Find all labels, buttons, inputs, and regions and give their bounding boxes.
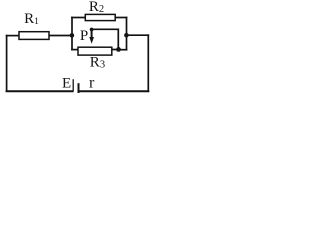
battery short plate (r side)	[78, 83, 80, 93]
node B junction dot	[124, 33, 129, 38]
potentiometer wiper arrowhead	[89, 37, 94, 44]
battery long plate (E)	[72, 79, 74, 91]
wire top left corner to R1	[7, 35, 19, 37]
svg-text:E: E	[62, 75, 71, 91]
R3 right terminal junction dot	[116, 47, 121, 52]
resistor R2	[85, 14, 115, 20]
svg-text:r: r	[89, 75, 95, 92]
wire R3 right end to terminal dot	[112, 49, 119, 51]
wire left edge	[6, 36, 8, 92]
wire bottom left	[7, 90, 73, 92]
wire node A top to R2 left	[72, 17, 85, 19]
wire vertical through node A	[71, 18, 73, 50]
wire right edge	[147, 35, 149, 91]
wire node A bottom to R3 left	[72, 49, 78, 51]
wire wiper P top to R3 right terminal	[92, 29, 119, 49]
wire jog from vertical B to R3 right terminal	[118, 49, 126, 51]
svg-text:P: P	[80, 28, 88, 44]
wire R1 to node A	[49, 35, 72, 37]
svg-text:R2: R2	[89, 0, 104, 15]
resistor R3 (potentiometer track)	[78, 47, 112, 55]
potentiometer wiper arrow shaft	[91, 29, 93, 38]
wiper top junction dot	[90, 28, 94, 32]
wire top right (node B to right edge)	[127, 34, 149, 36]
node A junction dot	[70, 33, 75, 38]
resistor R1	[19, 32, 49, 40]
svg-text:R3: R3	[90, 55, 105, 71]
wire R2 right to vertical B	[115, 17, 126, 19]
wire vertical B (R2 right down through node B to jog)	[126, 18, 128, 50]
wire bottom right	[79, 90, 149, 92]
svg-text:R1: R1	[24, 11, 39, 27]
